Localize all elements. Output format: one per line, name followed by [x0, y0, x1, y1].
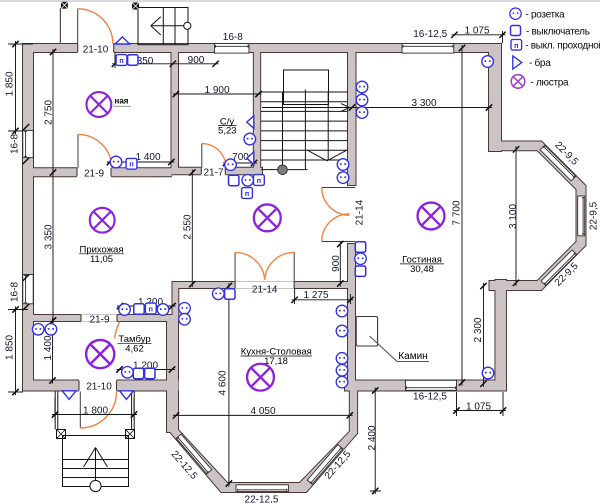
door opening 21-10 top wall — [78, 43, 114, 53]
dim 1075 bottom line — [454, 392, 507, 416]
svg-text:1 275: 1 275 — [303, 290, 328, 301]
wall: bottom-left exterior — [22, 380, 179, 392]
dim 1200 tambour line — [117, 369, 176, 371]
window 22-12,5 kitchen bay right diagonal — [307, 444, 343, 484]
switch hallway south — [134, 304, 144, 314]
door arc fragment 21-9 tambour top — [115, 322, 120, 339]
svg-text:900: 900 — [331, 255, 342, 272]
sconce porch right — [120, 391, 134, 400]
door leaf 21-10 top — [77, 9, 79, 44]
column top-left — [61, 2, 68, 9]
pass switch top wall — [116, 55, 127, 66]
legend chandelier symbol — [511, 75, 525, 89]
socket stairs right 3 — [356, 107, 368, 119]
socket kitchen northwest 1 — [179, 303, 191, 315]
svg-text:22-12,5: 22-12,5 — [245, 495, 279, 503]
wall: top exterior — [22, 43, 502, 53]
svg-text:1 850: 1 850 — [5, 335, 16, 360]
socket stairs right 1 — [356, 81, 368, 93]
sconce bathroom east 2 — [247, 152, 254, 165]
porch top left rail — [59, 8, 61, 44]
svg-text:- люстра: - люстра — [531, 77, 569, 88]
window 16-12,5 bottom wall — [406, 380, 457, 390]
staircase direction arrow — [262, 104, 350, 112]
sconce bathroom east 1 — [247, 116, 254, 129]
socket hallway door — [110, 156, 122, 168]
room label top — [113, 97, 131, 107]
svg-text:22-9,5: 22-9,5 — [589, 201, 600, 230]
room label kitchen — [241, 347, 313, 367]
wall: stairs right — [347, 51, 357, 186]
column bottom-right — [126, 430, 135, 439]
chandelier top room — [86, 92, 111, 117]
porch bottom rails — [55, 392, 134, 430]
switch kitchen north — [225, 289, 235, 299]
dim 1075 top line — [451, 31, 505, 43]
door opening 21-7 bathroom — [201, 167, 225, 176]
svg-text:4 600: 4 600 — [218, 370, 229, 395]
socket stairs bottom 2 — [337, 172, 349, 184]
door arc 21-10 tambour bottom — [80, 392, 116, 428]
window 22-9,5 bay right — [578, 196, 585, 236]
svg-text:1 900: 1 900 — [204, 85, 229, 96]
socket tambour west 2 — [45, 324, 57, 336]
svg-text:- выкл. проходной: - выкл. проходной — [525, 41, 600, 52]
wall: kitchen / living partition — [347, 243, 356, 391]
door arcs 21-14 kitchen double — [235, 252, 294, 279]
dim 16-8 left lower ticks — [23, 304, 29, 310]
socket living bottom — [482, 367, 494, 379]
switch tambour south 2 — [145, 368, 155, 378]
switch tambour south 1 — [133, 368, 143, 378]
wall: partition top room / bathroom — [171, 51, 180, 172]
svg-text:16-8: 16-8 — [223, 32, 243, 43]
svg-text:16-12,5: 16-12,5 — [413, 29, 447, 40]
svg-text:ная: ная — [115, 97, 129, 106]
door leaf 21-9 hall top — [77, 134, 79, 168]
porch bottom stairs arrow — [84, 448, 108, 492]
dim 700 bathroom line — [223, 162, 257, 164]
window 22-9,5 bay bottom diagonal — [541, 250, 577, 286]
svg-text:350: 350 — [137, 56, 154, 67]
sconce porch left — [62, 391, 76, 400]
dim 1400 hallway door line — [107, 161, 174, 163]
room label tambour — [118, 334, 152, 354]
svg-text:21-10: 21-10 — [83, 45, 109, 56]
svg-text:3 300: 3 300 — [411, 98, 436, 109]
svg-text:21-10: 21-10 — [86, 382, 112, 393]
svg-text:900: 900 — [188, 55, 205, 66]
door leaf 21-10 tambour bottom — [79, 392, 81, 429]
svg-text:Камин: Камин — [398, 351, 427, 362]
dim 2750/3350 left line — [52, 49, 54, 324]
switch hall north — [229, 175, 239, 185]
svg-text:17,18: 17,18 — [264, 356, 288, 367]
pass switch hallway door — [126, 158, 137, 169]
dim 7700 line — [461, 45, 463, 386]
svg-text:11,05: 11,05 — [90, 254, 113, 265]
dim 2400 line — [370, 388, 381, 495]
dimension tick marks — [12, 32, 519, 495]
socket bathroom east — [244, 133, 256, 145]
socket kitchen northwest 2 — [179, 313, 191, 325]
dim 2550 line — [191, 170, 193, 288]
socket hallway south 2 — [157, 304, 169, 316]
door leaves 21-14 kitchen double — [235, 252, 294, 282]
svg-text:7 700: 7 700 — [452, 200, 463, 225]
svg-text:21-7: 21-7 — [203, 168, 223, 179]
dim 350/900 top line — [112, 52, 219, 68]
svg-text:1 400: 1 400 — [43, 335, 54, 360]
column top-right — [132, 3, 139, 10]
wall: kitchen bay window band — [167, 390, 358, 493]
window 16-12,5 top wall — [402, 44, 454, 54]
dim 1900 bathroom line — [173, 93, 262, 95]
dim 900 living line — [339, 241, 341, 287]
chandelier tambour — [86, 340, 114, 368]
svg-text:1 075: 1 075 — [464, 26, 489, 37]
porch top stairs arrow — [151, 17, 191, 35]
socket living west — [355, 253, 367, 265]
porch top stairs — [138, 8, 188, 45]
wall: stairs left — [253, 51, 261, 175]
column bottom-left — [57, 430, 66, 439]
socket hallway south 1 — [119, 304, 131, 316]
door arc 21-10 top — [78, 9, 113, 44]
dim 1850 bottom-left line — [8, 307, 28, 396]
staircase break line — [308, 150, 347, 161]
room label bathroom — [218, 116, 237, 136]
legend sconce symbol — [513, 56, 522, 69]
door opening 21-14 kitchen double — [235, 281, 294, 288]
svg-text:3 100: 3 100 — [508, 204, 519, 229]
wall: tambour top — [27, 314, 179, 322]
chandelier kitchen — [247, 364, 274, 391]
door opening 21-9 tambour top — [81, 314, 117, 321]
dim 1400 tambour line — [52, 318, 54, 384]
switch living west 2 — [355, 266, 365, 276]
window 22-9,5 bay top diagonal — [540, 145, 576, 181]
svg-text:3 350: 3 350 — [44, 224, 55, 249]
door leaves 21-14 living double — [322, 188, 350, 242]
dim 3300 line — [349, 107, 492, 109]
socket hall north — [242, 175, 254, 187]
window 22-12,5 kitchen bay bottom — [236, 485, 289, 492]
socket stairs bottom 1 — [337, 159, 349, 171]
dim 16-8 left upper ticks — [23, 158, 29, 164]
staircase main steps — [261, 92, 348, 170]
svg-text:16-8: 16-8 — [10, 282, 21, 302]
svg-text:1 075: 1 075 — [466, 401, 491, 412]
svg-text:21-14: 21-14 — [355, 199, 366, 225]
wall: bottom-right exterior — [344, 380, 507, 392]
socket stairs right 2 — [356, 94, 368, 106]
legend switch symbol — [511, 26, 521, 36]
room label hallway — [79, 245, 124, 266]
pass switch hall north 1 — [254, 175, 265, 186]
svg-text:2 550: 2 550 — [183, 214, 194, 239]
svg-text:1 400: 1 400 — [135, 152, 160, 163]
socket kitchen east 4 — [336, 365, 348, 377]
wall: left exterior — [22, 43, 34, 392]
socket tambour west 1 — [32, 324, 44, 336]
dim 2300 line — [483, 283, 485, 387]
wall: right upper exterior — [488, 43, 502, 152]
chandelier hall center — [254, 204, 281, 231]
door leaf 21-7 bathroom — [201, 144, 203, 168]
wall: bathroom bottom — [172, 167, 264, 175]
svg-text:2 750: 2 750 — [44, 100, 55, 125]
svg-text:21-14: 21-14 — [252, 285, 278, 296]
door arc 21-7 bathroom — [202, 144, 226, 168]
socket tambour south — [122, 367, 134, 379]
wall: partition hall left — [171, 281, 179, 319]
svg-text:21-9: 21-9 — [89, 315, 109, 326]
svg-text:21-9: 21-9 — [84, 168, 104, 179]
dim 1800 line — [52, 398, 137, 420]
switch top wall — [128, 55, 138, 65]
svg-text:- бра: - бра — [529, 57, 551, 69]
switch living west 1 — [355, 242, 365, 252]
wall: living-room bay window band — [489, 141, 586, 291]
door arcs 21-14 living double — [322, 188, 350, 242]
wall: kitchen top — [172, 281, 354, 289]
socket kitchen east 2 — [336, 325, 348, 337]
svg-text:1 850: 1 850 — [5, 71, 16, 96]
dim 3100 line — [515, 146, 517, 285]
svg-text:1 800: 1 800 — [83, 405, 108, 416]
svg-text:16-8: 16-8 — [10, 134, 21, 154]
socket kitchen east 1 — [336, 305, 348, 317]
staircase stringers — [283, 90, 329, 170]
svg-text:- розетка: - розетка — [526, 10, 566, 21]
chandelier hallway — [90, 208, 115, 233]
svg-text:- выключатель: - выключатель — [526, 27, 590, 38]
svg-text:2 400: 2 400 — [367, 425, 378, 450]
window 16-8 left wall lower — [23, 275, 33, 304]
svg-text:2 300: 2 300 — [473, 317, 484, 342]
socket kitchen east 5 — [336, 376, 348, 388]
door opening 21-14 living double — [347, 188, 356, 242]
window 22-12,5 kitchen bay left diagonal — [176, 434, 212, 474]
wall: right lower exterior — [494, 279, 507, 392]
svg-text:30,48: 30,48 — [410, 264, 434, 275]
legend pass switch symbol — [511, 40, 522, 51]
dim 1850 top-left line — [8, 41, 33, 134]
sconce top door — [115, 37, 129, 44]
wall: tambour right / kitchen left exterior — [166, 314, 179, 433]
fireplace box — [356, 317, 377, 347]
window 16-8 top wall — [215, 44, 250, 54]
top window border strip — [0, 0, 600, 2]
pass switch hallway south — [145, 303, 156, 314]
socket living corner — [482, 56, 494, 68]
door opening 21-9 hall top wall — [77, 167, 111, 177]
door arc 21-9 hall top — [78, 134, 112, 168]
svg-text:4 050: 4 050 — [250, 406, 275, 417]
svg-text:4,62: 4,62 — [125, 343, 144, 354]
fireplace leader line — [370, 336, 430, 362]
svg-text:16-12,5: 16-12,5 — [413, 391, 447, 402]
staircase landing — [284, 70, 329, 105]
porch bottom stairs — [63, 436, 129, 487]
door opening 21-10 tambour bottom — [79, 379, 117, 391]
dim 1200 hallway line — [117, 305, 176, 307]
dim 1275 line — [292, 288, 354, 304]
socket kitchen east 3 — [336, 353, 348, 365]
dim 4600 line — [228, 283, 230, 487]
socket bathroom south — [225, 159, 237, 171]
chandelier living room — [418, 203, 445, 230]
dim 4050 line — [173, 414, 353, 416]
room label living — [400, 255, 444, 275]
staircase newel circle — [278, 165, 288, 175]
window 16-8 left wall upper — [23, 130, 33, 157]
legend socket symbol — [510, 8, 521, 19]
socket kitchen north — [213, 288, 225, 300]
svg-text:5,23: 5,23 — [218, 126, 237, 137]
svg-text:п: п — [514, 41, 519, 50]
pass switch hall north 2 — [242, 188, 253, 199]
wall: hall top (prихожая top) — [32, 167, 172, 177]
